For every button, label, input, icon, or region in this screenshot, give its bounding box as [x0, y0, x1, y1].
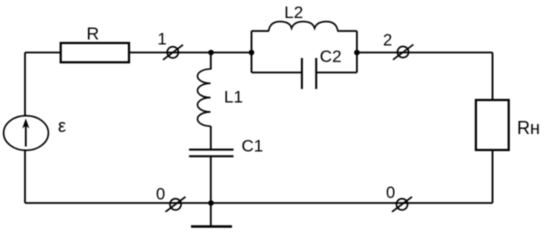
wire — [129, 52, 252, 54]
wire — [25, 202, 493, 204]
capacitor C1 — [189, 150, 234, 157]
ground — [191, 225, 232, 227]
svg-text:1: 1 — [158, 31, 167, 49]
wire — [24, 53, 26, 117]
node D junction — [354, 50, 360, 56]
svg-text:L2: L2 — [284, 3, 303, 22]
wire — [25, 52, 61, 54]
wire — [356, 31, 358, 73]
wire — [210, 156, 212, 226]
resistor Rn — [476, 100, 509, 150]
svg-text:ε: ε — [58, 116, 66, 136]
node C junction — [249, 50, 255, 56]
wire — [252, 30, 270, 32]
wire — [251, 31, 253, 73]
wire — [210, 53, 212, 70]
wire — [492, 150, 494, 203]
svg-text:R: R — [87, 24, 100, 44]
wire — [252, 72, 302, 74]
node 1 — [163, 45, 183, 60]
node B junction — [208, 200, 214, 206]
resistor R — [61, 43, 129, 62]
svg-text:0: 0 — [386, 184, 395, 202]
svg-text:0: 0 — [156, 186, 165, 204]
current source E1 — [4, 116, 49, 151]
wire — [357, 52, 493, 54]
inductor L2 — [269, 22, 338, 31]
svg-text:L1: L1 — [224, 88, 243, 107]
node 2 — [393, 45, 413, 60]
svg-text:2: 2 — [383, 32, 392, 50]
wire — [24, 151, 26, 204]
svg-text:C2: C2 — [320, 47, 342, 66]
wire — [316, 72, 357, 74]
wire — [492, 53, 494, 101]
svg-text:Rн: Rн — [517, 118, 540, 138]
wire — [337, 30, 357, 32]
node 0 left — [166, 197, 186, 212]
node A junction — [208, 50, 214, 56]
node 0 right — [392, 197, 412, 212]
wire — [210, 126, 212, 150]
svg-text:C1: C1 — [242, 137, 264, 156]
capacitor C2 — [302, 58, 316, 89]
inductor L1 — [197, 69, 210, 126]
